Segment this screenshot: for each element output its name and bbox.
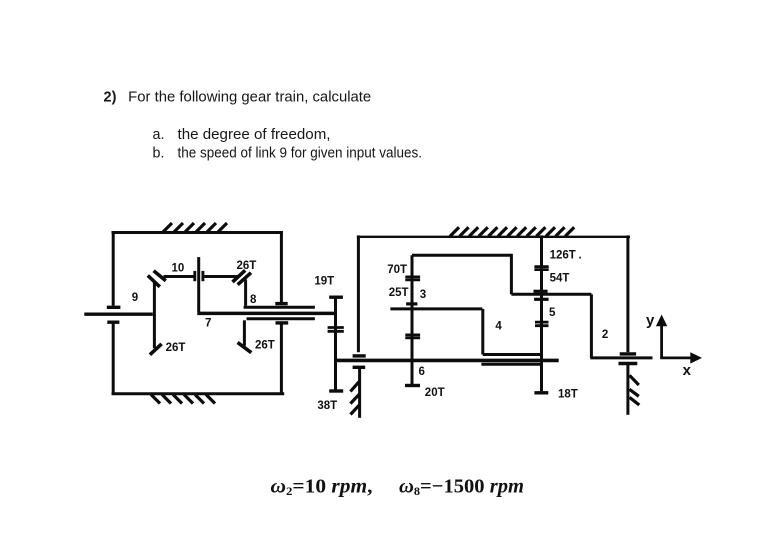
ground arm vertical [357, 235, 360, 352]
bearing line at link2 shaft [590, 356, 652, 359]
link 2 input shaft vertical [626, 235, 629, 352]
ground post below link6 [358, 369, 361, 418]
svg-text:54T: 54T [550, 273, 570, 285]
svg-text:6: 6 [419, 366, 425, 378]
gear 38T bottom plate [329, 389, 343, 392]
bevel gear 26T lower-left [150, 344, 162, 355]
gear 20T bottom plate [405, 384, 420, 387]
bearing plate left lower [107, 321, 119, 324]
link 4 lower horizontal [483, 353, 543, 356]
svg-text:b.: b. [153, 146, 165, 162]
svg-text:3: 3 [420, 289, 426, 301]
ground post below link2 shaft [626, 365, 629, 415]
svg-text:ω2=10 rpm,: ω2=10 rpm, [271, 476, 373, 499]
component labels [132, 249, 609, 412]
svg-text:the degree of freedom,: the degree of freedom, [178, 127, 331, 143]
ground frame top bar [357, 236, 630, 238]
bearing plate above link6 shaft [353, 354, 366, 357]
svg-text:126T: 126T [550, 249, 576, 261]
svg-text:26T: 26T [237, 260, 257, 272]
axis labels [646, 312, 692, 379]
svg-text:y: y [646, 312, 655, 329]
svg-text:38T: 38T [317, 400, 337, 412]
x axis arrowhead [690, 352, 702, 363]
svg-text:4: 4 [495, 320, 502, 332]
link 9 shaft [84, 313, 153, 316]
link 7 horizontal shaft [197, 312, 335, 316]
link 2 arm: right vertical [590, 294, 593, 358]
link 4 sleeve bottom line [481, 363, 542, 366]
ground hatching top-left [163, 223, 227, 232]
gear 25T plate [406, 302, 417, 305]
gear 19T top plate [329, 296, 343, 299]
carrier frame right vertical upper [280, 231, 283, 302]
bearing plate below link6 shaft [353, 366, 366, 369]
svg-text:19T: 19T [314, 276, 334, 288]
carrier frame left vertical upper [112, 231, 115, 306]
gear mesh pair lower on gear3 shaft [405, 335, 420, 338]
bevel shaft vertical right upper [244, 280, 247, 306]
link 7 vertical [197, 257, 200, 312]
svg-text:8: 8 [250, 294, 257, 306]
link 2 arm: top horizontal [412, 254, 511, 257]
ground hatching at 38T post [350, 381, 360, 414]
bevel gear 26T lower-right [238, 342, 252, 352]
input values formula [271, 476, 525, 499]
y axis arrowhead [656, 315, 667, 327]
svg-text:a.: a. [153, 127, 165, 143]
bearing plate right upper [275, 302, 287, 305]
gear mesh pair on 19T shaft [328, 328, 344, 332]
ground hatching top-middle [450, 227, 574, 236]
link 2 arm: mid horizontal [511, 293, 591, 296]
svg-text:2: 2 [602, 329, 608, 341]
coordinate axes [660, 325, 692, 358]
link 8 sleeve top line [244, 306, 315, 309]
svg-text:26T: 26T [255, 340, 275, 352]
svg-text:7: 7 [205, 318, 211, 330]
svg-text:20T: 20T [425, 387, 445, 399]
gear 3 shaft [411, 255, 414, 384]
svg-text:the speed of link 9 for given: the speed of link 9 for given input valu… [178, 146, 423, 162]
problem statement text [104, 89, 423, 161]
link 10 shaft left segment [164, 275, 194, 278]
gear 19T / 38T shaft [334, 299, 337, 390]
gear 18T bottom plate [534, 391, 548, 394]
svg-text:x: x [683, 362, 692, 379]
svg-text:For the following gear train,: For the following gear train, calculate [128, 89, 371, 105]
link 4 top line [390, 307, 482, 310]
gear 5 mesh pair [535, 322, 549, 326]
bevel gear pair upper-left [148, 271, 166, 287]
svg-text:.: . [579, 249, 582, 261]
gear 126T/54T mesh pair [534, 267, 548, 270]
gear 70T mesh pair [405, 277, 420, 280]
gear 126T/54T/5/18T shaft [540, 235, 543, 391]
svg-text:10: 10 [172, 263, 185, 275]
link 4 vertical [481, 309, 484, 355]
bevel gear pair upper-right 26T [233, 270, 252, 284]
svg-text:25T: 25T [389, 287, 409, 299]
link 10 shaft right segment [204, 275, 237, 278]
x axis line [660, 356, 692, 359]
ground hatching at link2 post [630, 375, 640, 405]
bevel shaft vertical right lower [243, 320, 246, 346]
svg-text:26T: 26T [166, 342, 186, 354]
bearing plate below at link2 shaft [619, 362, 638, 365]
svg-text:2): 2) [104, 89, 117, 105]
svg-text:70T: 70T [387, 264, 407, 276]
link 8 sleeve bottom line [247, 317, 315, 320]
bearing plate above link2 arm [534, 290, 548, 293]
bevel shaft vertical left [153, 282, 156, 349]
ground hatching bottom-left [151, 395, 215, 404]
bearing plate right lower [276, 321, 289, 324]
gear mesh plate right of link7 [201, 271, 204, 281]
bearing plate above at link2 shaft [620, 352, 636, 355]
bearing plate below link2 arm [534, 298, 549, 301]
y axis line [660, 325, 663, 358]
carrier frame top bar [112, 231, 283, 234]
bearing plate left upper [107, 306, 121, 309]
link 6 main shaft [336, 359, 559, 363]
svg-text:9: 9 [132, 292, 138, 304]
svg-text:18T: 18T [558, 389, 578, 401]
gear mesh plate left of link7 [193, 271, 196, 281]
svg-text:5: 5 [549, 307, 556, 319]
carrier frame left vertical lower [112, 324, 115, 396]
carrier frame right vertical lower [280, 324, 283, 395]
carrier frame bottom bar [112, 392, 285, 395]
link 2 arm: mid vertical [510, 254, 513, 294]
